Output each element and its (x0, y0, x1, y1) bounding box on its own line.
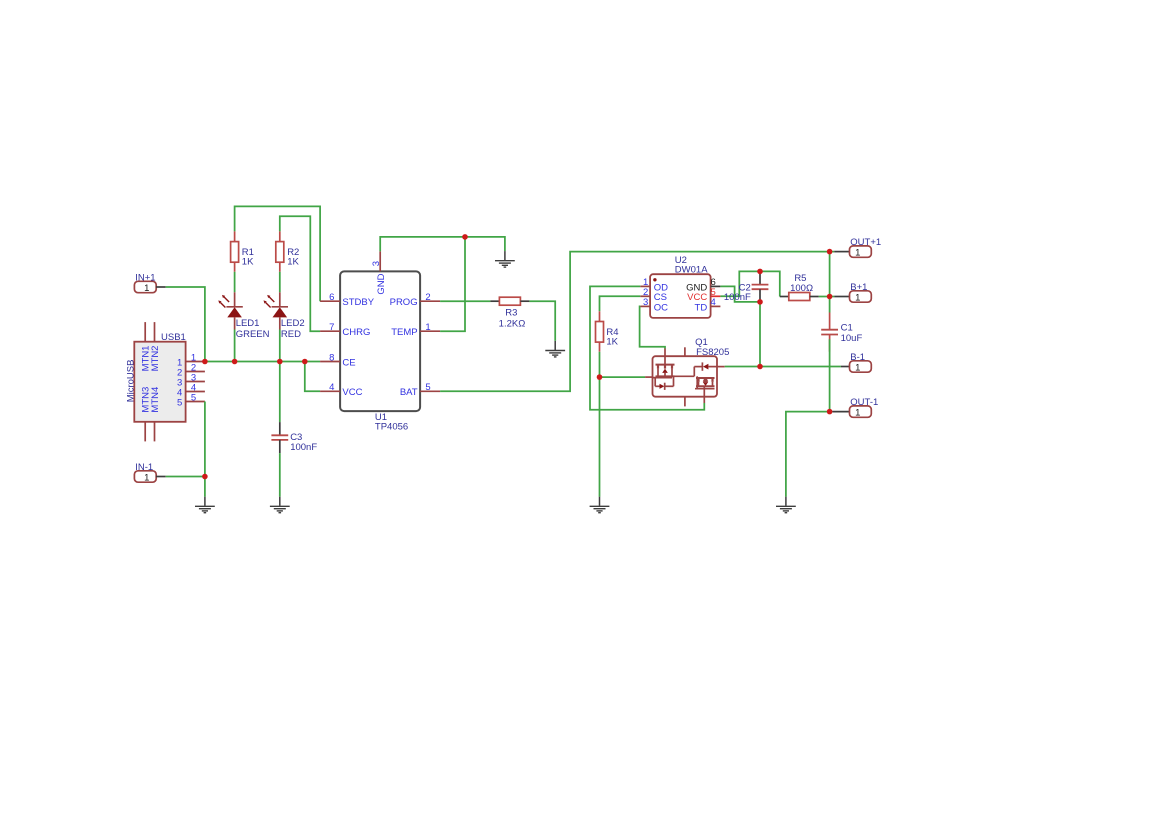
svg-text:IN-1: IN-1 (135, 462, 153, 473)
wire CS to R4 (600, 296, 641, 311)
pin 8 U1 CE (320, 361, 340, 363)
svg-text:FS8205: FS8205 (696, 347, 729, 358)
port OUT+1 (850, 237, 882, 259)
svg-text:TD: TD (695, 302, 708, 313)
transistor Q1 internals (653, 349, 717, 404)
junction B- / C2 (757, 364, 763, 370)
svg-text:TEMP: TEMP (391, 327, 417, 338)
wire R4 to ground (599, 352, 601, 497)
wire LED2 to bus (279, 330, 281, 362)
junction VCC branch (302, 359, 308, 365)
svg-text:OUT-1: OUT-1 (850, 397, 878, 408)
pin stub B-1 (841, 366, 850, 368)
svg-text:B-1: B-1 (850, 352, 865, 363)
pin G1 Q1 (645, 376, 652, 378)
port B+1 (850, 282, 872, 304)
resistor R3 (490, 297, 529, 305)
svg-text:CHRG: CHRG (342, 327, 370, 338)
junction C2 top (757, 269, 763, 275)
svg-text:10uF: 10uF (841, 333, 863, 344)
pin 7 U1 CHRG (320, 330, 340, 332)
svg-text:1: 1 (855, 408, 860, 419)
svg-text:3: 3 (371, 261, 382, 266)
svg-text:PROG: PROG (390, 297, 418, 308)
port OUT-1 (850, 397, 879, 419)
svg-text:4: 4 (329, 382, 334, 393)
wire BAT to OUT+ (440, 252, 834, 392)
svg-text:1: 1 (855, 248, 860, 259)
junction C2 bottom (757, 299, 763, 305)
wire C3 to ground (279, 453, 281, 497)
svg-text:5: 5 (425, 382, 430, 393)
pin 4 U1 VCC (320, 390, 340, 392)
svg-text:BAT: BAT (400, 387, 418, 398)
pin stub OUT-1 (832, 411, 849, 413)
wire VCC bus (205, 361, 320, 363)
pin 5 U2 VCC (711, 295, 721, 297)
pin stub B+1 (834, 296, 849, 298)
svg-text:1K: 1K (242, 256, 254, 267)
svg-text:VCC: VCC (342, 387, 362, 398)
svg-text:100nF: 100nF (290, 442, 317, 453)
svg-text:LED1: LED1 (236, 318, 260, 329)
pin 3 U2 OC (640, 305, 650, 307)
wire C2 top to R5 (760, 271, 780, 296)
svg-text:OUT+1: OUT+1 (850, 237, 881, 248)
port IN-1 (134, 462, 156, 484)
junction IN- / ground net (202, 474, 208, 480)
transistor Q1 FS8205 body (653, 356, 718, 397)
wire OC to Q1 (640, 306, 665, 348)
svg-text:1: 1 (425, 322, 430, 333)
svg-text:MTN4: MTN4 (150, 387, 161, 413)
pin 6 U2 GND (711, 285, 721, 287)
IC U2 DW01A body (650, 274, 711, 318)
wire C2 to B- rail (759, 302, 761, 367)
pin stub USB1.2 (186, 371, 205, 373)
wire LED1 to bus (234, 330, 236, 362)
connector USB1 MicroUSB (134, 322, 185, 441)
wire IN- to ground net (166, 476, 205, 478)
ground top middle (495, 251, 515, 267)
ground below OUT- (776, 497, 796, 513)
pin stub USB1.4 (186, 391, 205, 393)
junction R4/gate (597, 374, 603, 380)
junction LED2 / bus (277, 359, 283, 365)
pin stub USB1.1 (186, 361, 205, 363)
pin B- Q1 (717, 366, 725, 368)
resistor R2 (276, 231, 284, 271)
junction OUT+ (827, 249, 833, 255)
pin stub top Q1 (684, 347, 686, 356)
pin 3 U1 GND (379, 251, 381, 271)
wire bus to VCC pin (305, 362, 320, 392)
ground below C3 (270, 497, 290, 513)
svg-text:7: 7 (329, 322, 334, 333)
svg-text:1K: 1K (606, 336, 618, 347)
pin stub USB1.5 (186, 401, 205, 403)
svg-text:1.2KΩ: 1.2KΩ (499, 318, 526, 329)
capacitor C3 (271, 422, 288, 453)
ground near USB (195, 497, 215, 513)
wire R4 to Q1 G1 (600, 376, 646, 378)
port B-1 (850, 352, 872, 374)
svg-text:RED: RED (281, 329, 301, 340)
pin stub bottom Q1 (684, 397, 686, 407)
pin stub OUT+1 (834, 251, 849, 253)
svg-text:OC: OC (654, 302, 668, 313)
svg-text:1K: 1K (287, 256, 299, 267)
pin 6 U1 STDBY (320, 300, 340, 302)
svg-text:6: 6 (329, 292, 334, 303)
wire OUT+ rail to C1 (829, 252, 831, 313)
svg-text:8: 8 (329, 352, 334, 363)
svg-text:5: 5 (191, 392, 196, 403)
wire Q1 to B-1 (725, 366, 841, 368)
svg-text:MicroUSB: MicroUSB (125, 360, 136, 403)
pin 1 U2 OD (640, 285, 650, 287)
junction GND/TEMP (462, 234, 468, 240)
svg-text:1: 1 (144, 283, 149, 294)
pin 1 marker U2 (653, 278, 656, 281)
svg-text:C1: C1 (841, 323, 853, 334)
wire U1 GND pin to ground (380, 237, 505, 252)
svg-text:3: 3 (643, 297, 648, 308)
pin stub IN+1 (156, 286, 166, 288)
svg-text:DW01A: DW01A (675, 264, 708, 275)
svg-text:4: 4 (711, 297, 716, 308)
resistor R1 (231, 231, 239, 271)
svg-text:CE: CE (342, 357, 355, 368)
LED LED2 red (264, 292, 305, 340)
svg-text:TP4056: TP4056 (375, 422, 408, 433)
pin stub USB1.3 (186, 381, 205, 383)
svg-text:MTN2: MTN2 (150, 346, 161, 372)
wire PROG to R3 (440, 300, 490, 302)
svg-text:1: 1 (144, 473, 149, 484)
wire R2 to LED2 (279, 272, 281, 293)
capacitor C1 (821, 313, 838, 352)
svg-text:GND: GND (376, 273, 387, 294)
wire OUT- to ground (786, 412, 830, 497)
svg-text:1: 1 (855, 363, 860, 374)
svg-text:2: 2 (425, 292, 430, 303)
op-amp U1 TP4056 body (340, 271, 420, 411)
ground below R4 (590, 497, 610, 513)
wire GND to C2 bottom (720, 286, 760, 302)
pin 2 U1 PROG (420, 300, 440, 302)
pin 2 U2 CS (640, 295, 650, 297)
wire bus to C3 (279, 362, 281, 423)
junction B+ (827, 294, 833, 300)
junction IN+ / pin1 (202, 359, 208, 365)
pin 4 U2 TD (711, 305, 721, 307)
resistor R5 (780, 293, 819, 301)
wire R1 to LED1 (234, 272, 236, 293)
wire VCC to C2 top (720, 271, 760, 296)
svg-text:STDBY: STDBY (342, 297, 374, 308)
svg-text:USB1: USB1 (161, 332, 186, 343)
svg-text:LED2: LED2 (281, 318, 305, 329)
svg-text:GREEN: GREEN (236, 329, 270, 340)
svg-text:100Ω: 100Ω (790, 283, 813, 294)
pin 1 U1 TEMP (420, 330, 440, 332)
wire USB pin5 to ground (204, 402, 206, 497)
pin stub IN-1 (156, 476, 166, 478)
junction OUT- (827, 409, 833, 415)
ground below R3 (545, 341, 565, 357)
svg-text:B+1: B+1 (850, 282, 867, 293)
LED LED1 green (218, 292, 269, 340)
wire C1 to OUT- row (829, 339, 831, 411)
svg-text:1: 1 (855, 293, 860, 304)
svg-text:R3: R3 (505, 307, 517, 318)
wire R3 to ground (529, 301, 555, 341)
svg-text:5: 5 (177, 397, 182, 408)
wire IN+ to pin1 bus (166, 287, 205, 362)
resistor R4 (596, 311, 604, 351)
junction LED1 / bus (232, 359, 238, 365)
svg-text:IN+1: IN+1 (135, 272, 155, 283)
capacitor C2 (752, 271, 769, 302)
pin 5 U1 BAT (420, 390, 440, 392)
wire R5 to B+ (819, 296, 834, 298)
svg-text:100nF: 100nF (724, 292, 751, 303)
wire TEMP to GND net (440, 237, 465, 331)
port IN+1 (134, 272, 156, 294)
wire R1 to STDBY (235, 206, 321, 301)
wire R2 to CHRG (280, 216, 320, 331)
wire OD to Q1 S2 (590, 286, 704, 409)
